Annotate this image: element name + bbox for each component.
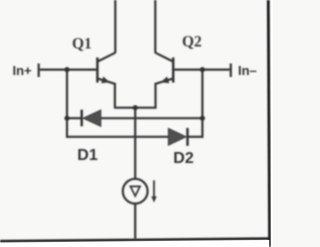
frame right line [268,0,269,247]
current source I1 circle [123,179,148,204]
diode D1 cathode bar [80,110,83,127]
svg-text:Q1: Q1 [72,35,92,52]
junction dot right rail / D1 [200,116,205,121]
wire Q2 emitter diagonal [156,78,174,83]
wire D2 left [66,136,168,138]
current source inner triangle [130,186,140,196]
svg-text:D2: D2 [173,150,194,167]
wire Q2 collector vertical [154,0,156,53]
frame bottom line [0,239,269,242]
junction dot In+ [64,67,69,72]
wire right rail [201,70,203,138]
diode D1 triangle [83,110,101,126]
wire D2 right [189,136,204,138]
current direction arrow head [151,196,156,202]
current direction arrow line [153,180,155,198]
white area below frame [0,240,269,247]
wire In+ base [40,68,97,70]
svg-text:In+: In+ [13,63,33,78]
wire Q2 collector diagonal [155,53,173,62]
junction dot emitter rail [133,105,138,110]
junction dot In- [200,67,205,72]
transistor Q1 base bar [96,57,99,82]
white area right of frame [271,0,273,247]
svg-text:In–: In– [238,63,257,78]
junction dot left rail / D1 [64,116,69,121]
wire Q1 collector vertical [114,0,116,53]
wire current source bottom lead [134,204,136,240]
svg-text:D1: D1 [77,147,98,164]
wire emitter rail [114,107,157,109]
terminal tick In+ [38,64,40,78]
wire center drop to current source [134,108,136,179]
wire left rail [66,70,68,138]
terminal tick In- [230,64,232,78]
wire D1 right [101,117,203,119]
diode D2 cathode bar [186,128,189,146]
transistor Q2 base bar [172,57,175,82]
wire D1 left [67,117,81,119]
svg-text:Q2: Q2 [182,34,202,51]
transistor Q1 emitter arrow [101,77,110,84]
wire Q1 emitter diagonal [97,78,115,83]
wire Q1 emitter vertical [114,83,116,108]
wire In- base [174,68,230,70]
wire Q1 collector diagonal [97,53,115,62]
wire Q2 emitter vertical [154,83,156,108]
diode D2 triangle [168,128,186,145]
transistor Q2 emitter arrow [161,77,170,84]
